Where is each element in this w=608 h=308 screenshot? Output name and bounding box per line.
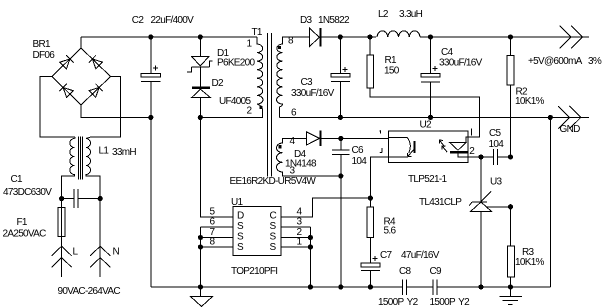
node D4 cathode C6 top bbox=[338, 136, 343, 141]
svg-text:S: S bbox=[270, 232, 277, 243]
svg-text:104: 104 bbox=[489, 139, 505, 150]
node C4 bottom bbox=[428, 115, 433, 120]
capacitor C2 electrolytic bbox=[141, 37, 161, 117]
svg-text:C9: C9 bbox=[430, 266, 443, 277]
svg-text:2: 2 bbox=[247, 106, 253, 117]
label R4 5.6 bbox=[384, 217, 397, 237]
svg-text:C5: C5 bbox=[489, 128, 502, 139]
U2 pin mark 3 bottom-left bbox=[380, 148, 382, 152]
C3 plus sign bbox=[343, 67, 348, 72]
node C3 top bbox=[338, 34, 343, 39]
bridge diode bottom-right bbox=[89, 84, 103, 98]
wire U1 pin3 bbox=[281, 226, 311, 228]
wire U1 source bus right bbox=[309, 227, 311, 287]
wire bridge right vertex to choke bbox=[91, 77, 121, 138]
label C4 330uF/16V bbox=[439, 47, 483, 69]
node R2 top bbox=[508, 34, 513, 39]
U2 LED light arrows bbox=[439, 140, 447, 152]
shunt regulator U3 TL431CLP bbox=[469, 157, 491, 287]
label D1 P6KE200 bbox=[217, 48, 255, 69]
wire +5V rail D3 to L2 bbox=[340, 36, 376, 38]
svg-text:D3: D3 bbox=[300, 15, 313, 26]
svg-text:C7: C7 bbox=[380, 250, 393, 261]
U2 LED triangle bbox=[450, 143, 466, 151]
node U1 pin7 bbox=[198, 235, 203, 240]
wire GND rail down to secondary ground bbox=[549, 117, 551, 287]
label D3 1N5822 bbox=[300, 15, 350, 26]
svg-text:10K1%: 10K1% bbox=[515, 257, 545, 268]
common-mode choke L1 right winding bbox=[86, 137, 100, 199]
wire bias return to ground rail bbox=[340, 176, 342, 287]
svg-text:TOP210PFI: TOP210PFI bbox=[231, 266, 277, 277]
wire bridge left vertex to choke bbox=[40, 77, 75, 138]
terminal N (neutral input arrow) bbox=[90, 199, 110, 277]
node R4 top feedback bbox=[368, 196, 373, 201]
svg-text:TLP521-1: TLP521-1 bbox=[408, 174, 447, 185]
primary ground symbol bbox=[191, 287, 213, 307]
earth ground symbol bbox=[499, 287, 522, 305]
capacitor C6 104 bbox=[332, 138, 350, 176]
wire U1 pin7 bbox=[201, 237, 234, 239]
label C1 473DC630V bbox=[3, 174, 52, 198]
svg-text:C: C bbox=[270, 211, 277, 222]
U2 LED cathode path bbox=[458, 152, 468, 157]
common-mode choke L1 left winding bbox=[62, 137, 75, 198]
svg-text:P6KE200: P6KE200 bbox=[217, 58, 255, 69]
U1 pin numbers 5 6 7 8 bbox=[210, 207, 216, 248]
svg-text:8: 8 bbox=[210, 237, 216, 248]
label R1 150 bbox=[384, 55, 400, 77]
svg-text:1N5822: 1N5822 bbox=[318, 15, 350, 26]
U2 phototransistor emitter with arrow bbox=[388, 149, 414, 157]
capacitor C1 (X cap) bbox=[62, 189, 101, 208]
svg-text:330uF/16V: 330uF/16V bbox=[439, 58, 483, 69]
output arrow +5V bbox=[560, 26, 583, 49]
node C4 top bbox=[428, 34, 433, 39]
capacitor C3 electrolytic bbox=[331, 37, 350, 117]
ground rail segment C9-right bbox=[437, 286, 550, 288]
svg-text:2: 2 bbox=[469, 146, 475, 157]
svg-text:T1: T1 bbox=[252, 27, 263, 38]
svg-text:6: 6 bbox=[210, 217, 216, 228]
capacitor C4 electrolytic bbox=[421, 37, 440, 117]
node C3 bottom bbox=[338, 115, 343, 120]
svg-text:GND: GND bbox=[560, 124, 581, 135]
label C5 104 bbox=[489, 128, 505, 150]
svg-text:330uF/16V: 330uF/16V bbox=[291, 88, 335, 99]
diode D4 1N4148 bbox=[307, 131, 389, 146]
label L2 3.3uH bbox=[378, 9, 423, 20]
svg-text:EE16R2KD-UR5V4W: EE16R2KD-UR5V4W bbox=[230, 176, 317, 187]
svg-text:+5V@600mA 3%: +5V@600mA 3% bbox=[528, 56, 602, 67]
node DC+ at C2 bbox=[148, 34, 153, 39]
svg-text:473DC630V: 473DC630V bbox=[3, 187, 52, 198]
T1 bias phase dot pin4 bbox=[278, 145, 281, 148]
bridge diode top-right bbox=[89, 55, 103, 69]
node C1 right bbox=[98, 196, 103, 201]
node R3 bottom on ground rail bbox=[508, 284, 513, 289]
svg-text:22uF/400V: 22uF/400V bbox=[151, 15, 195, 26]
svg-text:4: 4 bbox=[290, 136, 296, 147]
optocoupler U2 TLP521-1 box bbox=[388, 131, 468, 162]
label F1 2A250VAC bbox=[3, 217, 47, 240]
C4 plus sign bbox=[432, 66, 437, 71]
node U2 pin2 TL431 cathode bbox=[478, 154, 483, 159]
svg-text:C6: C6 bbox=[352, 145, 365, 156]
ground rail segment C8-C9 bbox=[406, 286, 433, 288]
svg-text:N: N bbox=[113, 247, 120, 258]
node source bus on ground rail bbox=[198, 284, 203, 289]
node U1 pin8 bbox=[198, 244, 203, 249]
U2 phototransistor bar bbox=[414, 141, 416, 153]
node drain bbox=[198, 115, 203, 120]
U2 pin mark 4 top-right bbox=[471, 129, 473, 136]
transformer T1 core bbox=[268, 33, 272, 177]
svg-text:47uF/16V: 47uF/16V bbox=[401, 250, 440, 261]
U2 LED anode path bbox=[466, 137, 468, 143]
svg-text:S: S bbox=[237, 242, 244, 253]
svg-text:1500P Y2: 1500P Y2 bbox=[378, 297, 419, 308]
U2 phototransistor base curve bbox=[407, 137, 410, 153]
label D4 1N4148 bbox=[285, 149, 317, 170]
transformer T1 secondary winding pin8-pin6 bbox=[277, 37, 310, 117]
wire R1 bottom to opto LED anode bbox=[370, 88, 480, 137]
wire drain node down to U1 pin5 bbox=[200, 117, 233, 217]
wire DC+ top rail bbox=[81, 36, 257, 38]
node D1 top bbox=[198, 34, 203, 39]
label C7 47uF/16V bbox=[380, 250, 440, 261]
svg-text:BR1: BR1 bbox=[33, 39, 51, 50]
U2 phototransistor collector wire bbox=[388, 136, 407, 138]
svg-text:C1: C1 bbox=[11, 174, 24, 185]
svg-text:S: S bbox=[270, 221, 277, 232]
svg-text:C8: C8 bbox=[399, 266, 412, 277]
bridge rectifier BR1 diamond bbox=[52, 48, 111, 105]
IC U1 TOP210PFI box bbox=[233, 207, 281, 256]
U1 pin letters C S S S bbox=[270, 211, 277, 254]
svg-text:S: S bbox=[237, 232, 244, 243]
svg-text:S: S bbox=[270, 242, 277, 253]
svg-text:33mH: 33mH bbox=[112, 147, 136, 158]
bridge diode top-left bbox=[60, 55, 74, 69]
wire U2 pin3 emitter to R4 bbox=[370, 157, 388, 198]
svg-text:F1: F1 bbox=[17, 217, 28, 228]
diode D3 1N5822 bbox=[310, 28, 341, 47]
T1 primary phase dot pin2 bbox=[259, 106, 262, 109]
wire U1 pin1 bbox=[281, 246, 311, 248]
svg-text:10K1%: 10K1% bbox=[515, 96, 545, 107]
svg-text:U3: U3 bbox=[490, 177, 503, 188]
common-mode choke L1 core bbox=[78, 137, 82, 180]
U1 pin numbers 4 3 2 1 bbox=[297, 207, 303, 248]
transformer T1 bias winding pin4-pin3 bbox=[276, 138, 340, 176]
svg-text:90VAC-264VAC: 90VAC-264VAC bbox=[58, 286, 121, 297]
svg-text:2A250VAC: 2A250VAC bbox=[3, 229, 47, 240]
svg-text:150: 150 bbox=[384, 66, 400, 77]
svg-text:6: 6 bbox=[291, 108, 297, 119]
wire drain node to transformer pin2 bbox=[200, 104, 262, 117]
svg-text:3.3uH: 3.3uH bbox=[399, 9, 423, 20]
svg-text:R1: R1 bbox=[385, 55, 398, 66]
svg-text:DF06: DF06 bbox=[33, 50, 56, 61]
wire U2 pin2 to C5 bbox=[468, 156, 493, 158]
resistor R2 10K 1% bbox=[507, 37, 514, 157]
svg-text:S: S bbox=[237, 221, 244, 232]
svg-text:3: 3 bbox=[297, 217, 303, 228]
node GND rail corner bbox=[548, 115, 553, 120]
svg-text:L: L bbox=[73, 247, 79, 258]
node R1 top bbox=[367, 34, 372, 39]
node C7 bottom bbox=[368, 284, 373, 289]
svg-text:C3: C3 bbox=[301, 77, 314, 88]
svg-text:5.6: 5.6 bbox=[384, 226, 397, 237]
wire U1 pin6 bbox=[201, 226, 234, 228]
svg-text:104: 104 bbox=[352, 156, 368, 167]
wire bridge bottom vertex to C2 node bbox=[81, 105, 151, 117]
svg-text:C4: C4 bbox=[441, 47, 454, 58]
svg-text:1: 1 bbox=[297, 237, 303, 248]
U1 pin letters D S S S bbox=[237, 211, 244, 254]
transformer T1 primary winding pin1-pin2 bbox=[257, 37, 263, 104]
svg-text:TL431CLP: TL431CLP bbox=[419, 197, 462, 208]
svg-text:1: 1 bbox=[247, 39, 253, 50]
U2 pin mark 1 top-left bbox=[380, 130, 381, 133]
output arrow GND bbox=[558, 106, 581, 129]
capacitor C8 1500P Y2 bbox=[403, 279, 407, 295]
label L1 33mH bbox=[99, 146, 137, 159]
label R3 10K1% bbox=[515, 247, 545, 268]
node C2 bottom / DC- bbox=[148, 115, 153, 120]
svg-text:L1: L1 bbox=[99, 146, 110, 157]
capacitor C5 104 bbox=[493, 149, 510, 165]
bridge diode bottom-left bbox=[60, 84, 74, 98]
svg-text:D: D bbox=[237, 211, 244, 222]
svg-text:1500P Y2: 1500P Y2 bbox=[430, 297, 471, 308]
node right source bus on ground rail bbox=[308, 284, 313, 289]
C2 plus sign bbox=[153, 66, 158, 71]
node T1 pin3 C6 bottom bbox=[338, 173, 343, 178]
node C5 right divider bbox=[508, 154, 513, 159]
svg-text:D2: D2 bbox=[212, 78, 225, 89]
wire U1 pin8 bbox=[201, 246, 234, 248]
inductor L2 3.3uH bbox=[377, 31, 420, 37]
TVS diode D1 P6KE200 bbox=[187, 37, 213, 88]
svg-text:L2: L2 bbox=[378, 9, 389, 20]
wire TL431 ref bbox=[486, 206, 510, 208]
node C1 left bbox=[59, 196, 64, 201]
resistor R3 10K 1% bbox=[508, 207, 515, 287]
node U1 pin2 bbox=[308, 235, 313, 240]
node TL431 anode on ground rail bbox=[478, 284, 483, 289]
node U1 pin1 bbox=[308, 244, 313, 249]
diode D2 UF4005 bbox=[192, 88, 211, 118]
label C6 104 bbox=[352, 145, 368, 167]
wire U1 source bus left bbox=[200, 227, 202, 287]
T1 secondary phase dot pin8 bbox=[278, 46, 281, 49]
secondary ground rail bbox=[279, 116, 589, 118]
resistor R1 150 bbox=[367, 37, 374, 88]
svg-text:U2: U2 bbox=[420, 120, 433, 131]
wire U1 pin4 to feedback node bbox=[281, 198, 371, 217]
label C3 330uF/16V bbox=[291, 77, 335, 99]
U2 LED cathode bar bbox=[450, 151, 467, 153]
svg-text:C2: C2 bbox=[132, 15, 145, 26]
node bias return on ground rail bbox=[338, 284, 343, 289]
svg-text:U1: U1 bbox=[231, 197, 244, 208]
capacitor C7 electrolytic bbox=[361, 238, 380, 287]
wire +5V rail L2 to output bbox=[420, 36, 589, 38]
C7 plus sign bbox=[373, 256, 378, 261]
wire DC- down to primary ground rail bbox=[150, 117, 152, 287]
primary ground rail segment bbox=[151, 286, 403, 288]
node TL431 ref divider bbox=[508, 204, 513, 209]
svg-text:1N4148: 1N4148 bbox=[285, 159, 317, 170]
label BR1 DF06 bbox=[33, 39, 56, 61]
terminal L (line input arrow) bbox=[52, 246, 72, 277]
capacitor C9 1500P Y2 bbox=[433, 279, 437, 295]
wire bridge top vertex to DC+ rail bbox=[80, 37, 82, 48]
label R2 10K1% bbox=[515, 87, 545, 108]
wire U1 pin2 bbox=[281, 237, 311, 239]
fuse F1 bbox=[58, 199, 65, 247]
resistor R4 5.6 bbox=[367, 198, 373, 238]
label C2 22uF/400V bbox=[132, 15, 194, 26]
